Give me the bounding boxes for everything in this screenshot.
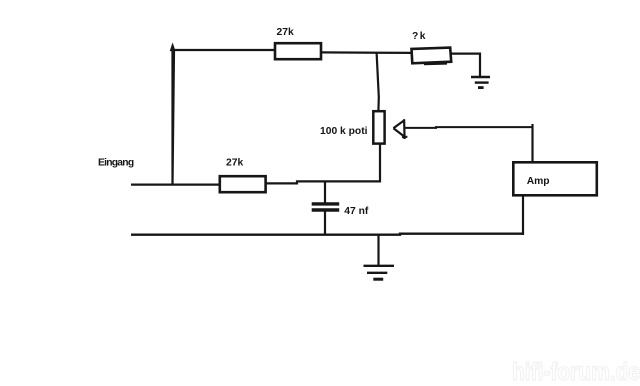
wire: bottom rail: [131, 234, 524, 235]
svg-text:Amp: Amp: [527, 176, 550, 187]
wire: R3 to pot-bottom node: [266, 181, 381, 183]
ground (bottom): [364, 266, 395, 279]
value label 47 nf: [344, 206, 369, 217]
capacitor C1 top lead: [324, 181, 326, 202]
svg-text:? k: ? k: [412, 31, 426, 42]
svg-text:27k: 27k: [277, 27, 294, 38]
capacitor C1 bottom lead: [324, 212, 326, 236]
wire: wiper to Amp (horizontal): [404, 126, 532, 129]
wire: drop into Amp top: [531, 124, 533, 163]
wire: slanted drop from top rail to potentiometer top: [377, 53, 379, 112]
resistor R3 27k (input): [220, 176, 266, 192]
value label 27k (top resistor): [277, 27, 294, 38]
value label 27k (input resistor): [226, 157, 243, 168]
svg-text:Eingang: Eingang: [98, 157, 134, 168]
label Amp: [527, 176, 550, 187]
capacitor C1 plates: [312, 204, 340, 210]
potentiometer P1 100k body: [373, 111, 384, 143]
svg-text:100 k poti: 100 k poti: [320, 126, 368, 137]
wire: from R2 to ground drop: [451, 54, 480, 77]
resistor R2 ?k: [412, 48, 452, 65]
wire: Amp bottom to ground rail: [522, 196, 524, 236]
wire: ground stub below bottom rail: [377, 234, 379, 267]
ground (top right): [471, 77, 490, 88]
svg-text:47 nf: 47 nf: [344, 206, 369, 217]
block U1 Amp: [513, 162, 597, 195]
svg-text:27k: 27k: [226, 157, 243, 168]
resistor R1 27k (top): [275, 43, 321, 59]
watermark hifi-forum.de: [512, 358, 640, 386]
value label 100 k poti: [320, 126, 368, 137]
svg-text:hifi-forum.de: hifi-forum.de: [512, 358, 640, 386]
wire: potentiometer bottom lead down to node: [379, 144, 381, 183]
wire: top rail left segment: [172, 49, 276, 51]
wire: left vertical riser from input line to top rail: [171, 46, 174, 186]
potentiometer wiper arrow: [393, 119, 407, 139]
value label ? k: [412, 31, 426, 42]
wire: input line: [131, 184, 221, 186]
label Eingang (input): [98, 157, 134, 168]
wire: top rail right segment: [321, 51, 413, 54]
